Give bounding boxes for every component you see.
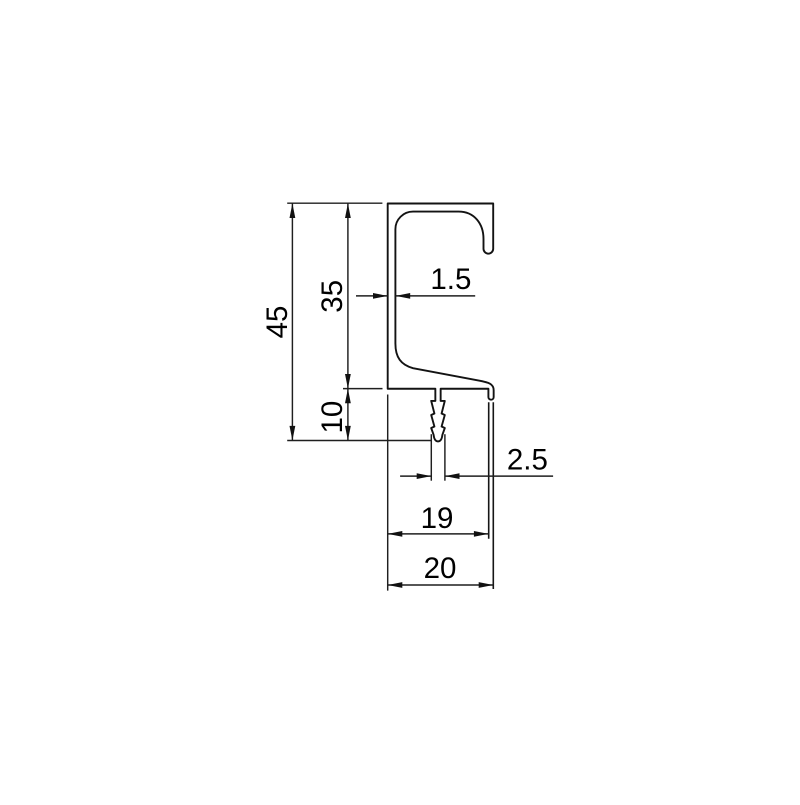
arrow 20 right (right-pointing): [479, 582, 494, 588]
arrow 10 top (up): [345, 389, 351, 404]
arrow 45 top (up): [290, 203, 296, 218]
extension top (45/35): [287, 202, 382, 204]
dimension texts: [261, 263, 548, 585]
svg-text:35: 35: [316, 280, 349, 313]
profile outline (closed cross-section): [388, 204, 494, 442]
dim line 10: [347, 389, 349, 441]
arrowheads: [290, 203, 494, 588]
svg-text:20: 20: [424, 552, 457, 585]
dimension graphics: [287, 203, 553, 590]
dim line 45: [291, 203, 293, 440]
arrow 35 bottom (down): [345, 374, 351, 389]
lower leg line (outer/right): [492, 402, 494, 589]
dim line 2.5 left: [400, 475, 431, 477]
arrow 10 bottom (down): [345, 426, 351, 441]
svg-text:1.5: 1.5: [430, 263, 471, 296]
extension left vertical (19/20): [387, 395, 389, 591]
dim line 1.5 right: [396, 295, 476, 297]
arrow 45 bottom (down): [290, 426, 296, 441]
extension bottom (45/10): [287, 440, 431, 442]
dim line 2.5 right: [445, 475, 553, 477]
arrow 2.5 right (left-pointing): [445, 473, 460, 479]
arrow 20 left (left-pointing): [388, 582, 403, 588]
arrow 35 top (up): [345, 203, 351, 218]
dim line 1.5 left: [356, 295, 388, 297]
dim line 20: [388, 584, 494, 586]
lower leg line (inner/left): [488, 402, 490, 539]
dim line 35: [347, 203, 349, 388]
extension mid (35/10 boundary): [343, 388, 383, 390]
extension 2.5 left: [430, 434, 432, 481]
svg-text:45: 45: [261, 306, 294, 339]
svg-text:19: 19: [421, 502, 454, 535]
arrow 1.5 left (right-pointing): [373, 293, 388, 299]
arrow 19 left (left-pointing): [388, 531, 403, 537]
arrow 2.5 left (right-pointing): [417, 473, 432, 479]
svg-text:10: 10: [316, 401, 349, 434]
extension 2.5 right: [444, 434, 446, 481]
arrow 19 right (right-pointing): [474, 531, 489, 537]
svg-text:2.5: 2.5: [507, 443, 548, 476]
arrow 1.5 right (left-pointing): [396, 293, 411, 299]
dim line 19: [388, 533, 489, 535]
